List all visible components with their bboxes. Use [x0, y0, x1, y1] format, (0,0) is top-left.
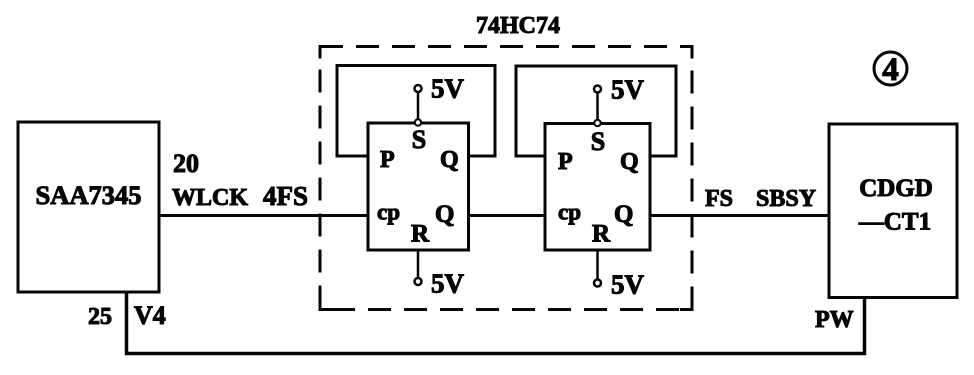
svg-text:Q: Q	[620, 149, 639, 175]
5V pull-up on R pin (U1A)	[415, 250, 465, 299]
wire feedback loop U1B (P to Q around top)	[516, 66, 676, 156]
svg-text:cp: cp	[558, 200, 581, 225]
net label SBSY	[756, 186, 816, 212]
net label 4FS	[263, 181, 308, 211]
svg-text:Q: Q	[614, 201, 633, 228]
svg-text:S: S	[412, 125, 426, 154]
wire U1A Q to U1B cp	[469, 214, 546, 217]
net label V4	[134, 301, 166, 330]
svg-text:SAA7345: SAA7345	[35, 180, 141, 210]
svg-text:5V: 5V	[431, 269, 465, 299]
wire U1B Q to CDGD-CT1	[650, 214, 829, 217]
svg-text:Q: Q	[435, 201, 454, 228]
svg-text:4: 4	[882, 52, 899, 88]
wire WLCK from SAA7345 pin 20 to U1A cp	[159, 214, 368, 217]
svg-text:Q: Q	[440, 147, 459, 173]
svg-text:cp: cp	[377, 200, 400, 225]
svg-text:5V: 5V	[611, 270, 645, 300]
svg-text:CDGD: CDGD	[859, 175, 933, 202]
pin number 20	[173, 149, 199, 178]
5V pull-up on S pin (U1A)	[415, 74, 465, 126]
5V pull-up on S pin (U1B)	[594, 75, 645, 127]
figure number 4 in circle	[874, 52, 907, 88]
svg-text:74HC74: 74HC74	[476, 13, 560, 39]
IC box SAA7345	[18, 122, 159, 292]
svg-text:P: P	[380, 147, 395, 173]
net label PW	[815, 307, 854, 333]
svg-text:S: S	[591, 127, 605, 156]
svg-text:WLCK: WLCK	[172, 185, 248, 211]
5V pull-up on R pin (U1B)	[594, 250, 645, 300]
pin number 25	[88, 304, 112, 330]
svg-text:—CT1: —CT1	[858, 209, 931, 236]
svg-text:5V: 5V	[611, 75, 645, 105]
net label WLCK	[172, 185, 248, 211]
svg-text:25: 25	[88, 304, 112, 330]
svg-text:4FS: 4FS	[263, 181, 308, 211]
svg-text:FS: FS	[705, 186, 733, 212]
wire V4/PW from SAA7345 pin 25 to CDGD-CT1 PW	[127, 292, 865, 354]
svg-text:R: R	[592, 221, 611, 248]
box CDGD-CT1	[829, 124, 957, 298]
svg-text:R: R	[411, 221, 430, 248]
wire feedback loop U1A (P to Q around top)	[337, 66, 495, 157]
svg-text:5V: 5V	[431, 74, 465, 104]
flip-flop U1B	[545, 124, 650, 251]
svg-text:PW: PW	[815, 307, 854, 333]
label 74HC74	[476, 13, 560, 39]
svg-text:V4: V4	[134, 301, 166, 330]
flip-flop U1A	[368, 123, 469, 250]
svg-text:SBSY: SBSY	[756, 186, 816, 212]
svg-text:P: P	[558, 149, 573, 175]
dashed IC outline 74HC74	[320, 47, 692, 310]
net label FS	[705, 186, 733, 212]
svg-text:20: 20	[173, 149, 199, 178]
